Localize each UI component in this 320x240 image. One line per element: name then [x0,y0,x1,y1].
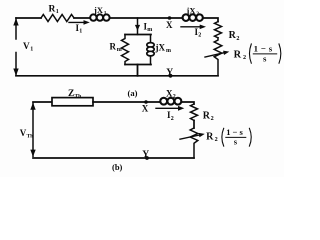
svg-text:R: R [206,131,214,142]
svg-text:R: R [49,4,56,14]
current arrow I1 [69,20,90,25]
label R2 (a) [229,30,240,42]
svg-text:jX: jX [155,42,166,52]
label R1 [49,4,59,15]
parentheses of (1-s)/s (a) [249,44,280,63]
label fraction (1-s)/s (a) [254,44,273,64]
svg-text:Th: Th [27,133,34,139]
label jX2 [186,5,200,16]
wire: circuit (b) top rail left segment [33,101,52,103]
wire: top rail right segment to corner [203,18,218,22]
current arrow I2 (b) [156,106,184,111]
fraction bar (b) [226,136,246,138]
svg-text:R: R [110,42,117,52]
label I2 (a) [195,27,202,39]
svg-text:Z: Z [68,89,74,99]
svg-text:2: 2 [196,11,199,17]
inductor jX2 [182,14,203,21]
svg-text:2: 2 [243,54,246,61]
inductor X2 (b) [159,98,182,105]
label X (b) [142,104,149,114]
inductor jXm (magnetizing branch) [147,35,154,65]
svg-text:X: X [166,20,173,30]
wire: circuit (b) top rail middle segment [93,101,159,103]
svg-text:1: 1 [30,46,33,52]
resistor Rm (core loss branch) [122,35,129,65]
label Y (b) [142,149,149,160]
label Im [144,21,153,33]
fraction bar (a) [253,53,276,55]
svg-text:X: X [142,104,149,114]
current arrow Im (branch into magnetizing leg) [135,18,140,35]
resistor R2 (b) [191,104,198,120]
current arrow I2 (a) [181,25,206,30]
label fraction (1-s)/s (b) [226,127,243,146]
wire: circuit (b) bottom rail [33,157,194,159]
label ZTh [68,89,81,99]
svg-text:2: 2 [198,33,201,39]
wire: circuit (a) top rail left segment [16,17,41,19]
svg-text:1: 1 [56,9,59,15]
label I2 (b) [167,110,174,122]
svg-text:m: m [147,27,152,33]
voltage arrow VTh (double headed) [30,103,35,157]
wire: segment between R2 and variable resistor (b) [193,120,195,128]
variable resistor R2(1-s)/s (b) [190,128,198,158]
wire: magnetizing branch top connector [125,34,151,36]
svg-text:(a): (a) [128,88,138,98]
resistor R2 (a) [215,22,222,38]
variable resistor R2(1-s)/s (a) [214,38,222,76]
svg-text:2: 2 [215,136,218,143]
label (b) [112,162,123,172]
svg-text:R: R [229,30,237,41]
svg-text:1: 1 [104,11,107,17]
voltage arrow V1 up [13,18,18,39]
svg-text:V: V [23,41,30,51]
svg-text:1 − s: 1 − s [254,44,273,54]
wire: segment between R1 and jX1 [74,17,90,19]
svg-text:Th: Th [75,94,82,100]
variable resistor arrow (b) [180,133,205,139]
svg-text:s: s [263,53,267,63]
label jXm [155,42,172,54]
parentheses of (1-s)/s (b) [222,128,251,146]
wire: magnetizing branch to bottom rail [137,65,139,76]
svg-text:2: 2 [211,115,214,122]
svg-text:R: R [203,110,211,121]
label Rm [110,42,122,54]
voltage arrow V1 down [13,53,18,76]
svg-text:Y: Y [166,67,173,78]
label R2 of R2(1-s)/s (a) [234,50,246,62]
svg-text:m: m [117,47,122,53]
label R2 (b) [203,110,214,122]
svg-text:2: 2 [236,35,239,42]
label VTh [20,128,34,140]
wire: circuit (b) top rail right corner [182,102,194,104]
label V1 [23,41,33,53]
wire: top rail middle segment [110,17,182,19]
node Y (b) junction dot [145,156,149,160]
svg-text:s: s [234,137,238,147]
svg-text:m: m [166,48,171,54]
inductor jX1 [90,14,110,20]
node X (b) junction dot [144,100,148,104]
variable resistor arrow (a) [205,51,229,57]
label Y (a) [166,67,173,78]
svg-text:Y: Y [142,149,149,160]
label X2 (b) [166,88,176,100]
node Y (a) junction dot [169,74,173,78]
label (a) [128,88,138,98]
svg-text:(b): (b) [112,162,123,172]
wire: magnetizing branch bottom connector [125,64,151,66]
resistor R1 [41,15,74,22]
svg-text:2: 2 [171,116,174,122]
label jX1 [93,5,107,16]
label X (a) [166,20,173,30]
impedance box ZTh [52,98,93,106]
svg-text:jX: jX [93,5,104,15]
wire: circuit (a) bottom rail [16,75,218,77]
label I1 [76,23,83,35]
svg-text:2: 2 [173,94,176,100]
svg-text:jX: jX [186,5,197,15]
label R2 of R2(1-s)/s (b) [206,131,218,143]
node X (a) junction dot [168,16,172,20]
svg-text:1: 1 [79,29,82,35]
svg-text:R: R [234,50,242,61]
